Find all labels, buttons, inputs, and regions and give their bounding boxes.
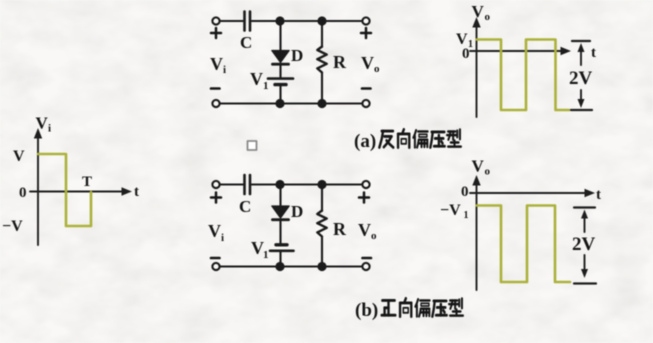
- svg-text:C: C: [240, 33, 252, 52]
- svg-text:0: 0: [19, 185, 27, 201]
- wire: bottom rail: [220, 102, 362, 104]
- svg-text:t: t: [134, 184, 139, 200]
- svg-text:V: V: [210, 54, 223, 74]
- wire: bottom rail: [220, 265, 362, 267]
- wire: battery V1 to bottom rail: [279, 252, 281, 267]
- svg-text:D: D: [291, 46, 303, 65]
- Vo(a) vertical axis: [476, 23, 478, 117]
- svg-text:1: 1: [464, 210, 469, 221]
- wire: node E down to resistor R: [321, 185, 323, 212]
- label - (output polarity): [363, 257, 372, 260]
- caption (b) forward-bias type: [355, 298, 463, 321]
- Vo(b) clamped square-wave trace: [477, 206, 571, 283]
- Vo(b) vertical axis: [476, 181, 478, 290]
- svg-text:o: o: [485, 11, 491, 23]
- svg-text:−V: −V: [2, 218, 23, 235]
- terminal: bottom-left input: [212, 263, 219, 270]
- svg-text:0: 0: [461, 184, 469, 200]
- 2V dimension up arrow: [578, 43, 585, 52]
- label + (input polarity): [211, 193, 221, 203]
- svg-text:V: V: [36, 114, 49, 133]
- svg-text:2V: 2V: [569, 68, 593, 89]
- battery V1 (long plate up, short plate down): [268, 77, 293, 80]
- svg-text:T: T: [82, 174, 92, 190]
- Vo(a) horizontal axis: [470, 50, 565, 52]
- bottom node under resistor junction dot: [317, 99, 326, 108]
- terminal: top-left input: [212, 181, 219, 188]
- wire: top-left terminal to capacitor: [220, 20, 243, 22]
- resistor R zigzag: [317, 47, 326, 73]
- wire: node C to node E: [280, 183, 322, 185]
- svg-text:i: i: [223, 64, 226, 76]
- Vi input square-wave trace: [38, 154, 91, 226]
- wire: node E to top-right terminal: [322, 183, 362, 185]
- svg-text:C: C: [239, 197, 251, 216]
- 2V dimension bottom bar: [571, 109, 592, 111]
- svg-text:0: 0: [462, 46, 470, 62]
- svg-text:1: 1: [263, 249, 269, 261]
- label - (input polarity): [211, 257, 220, 260]
- label + (output polarity): [359, 193, 369, 203]
- svg-text:D: D: [291, 202, 303, 221]
- svg-text:V: V: [358, 220, 371, 240]
- svg-text:(b): (b): [355, 300, 378, 321]
- resistor R zigzag: [317, 211, 326, 237]
- node C junction dot: [275, 180, 284, 189]
- Vo(a) horizontal axis arrowhead: [561, 47, 572, 55]
- label - (input polarity): [211, 87, 220, 90]
- wire: top-left terminal to capacitor: [220, 183, 243, 185]
- 2V dimension top bar: [572, 40, 590, 42]
- capacitor C1 plates: [245, 12, 251, 31]
- svg-text:2V: 2V: [572, 234, 596, 255]
- svg-text:(a): (a): [354, 131, 376, 152]
- svg-text:V: V: [472, 157, 485, 176]
- Vi plot horizontal axis (t): [30, 191, 126, 193]
- svg-text:−V: −V: [440, 202, 461, 219]
- Vo(b) horizontal axis: [470, 192, 589, 194]
- terminal: bottom-left input: [212, 100, 219, 107]
- node A junction dot: [275, 16, 284, 25]
- wire: diode cathode to battery V1: [279, 221, 281, 244]
- battery V1 (short plate up, long plate down): [276, 243, 287, 246]
- terminal: bottom-right output: [362, 100, 369, 107]
- bottom node under diode junction dot: [275, 262, 284, 271]
- svg-text:t: t: [596, 187, 601, 203]
- svg-text:o: o: [371, 230, 377, 242]
- label + (output polarity): [361, 28, 371, 38]
- node E junction dot: [317, 180, 326, 189]
- svg-text:R: R: [333, 52, 347, 72]
- svg-text:i: i: [48, 123, 51, 135]
- wire: diode cathode to battery V1: [279, 65, 281, 77]
- wire: battery V1 to bottom rail: [279, 86, 281, 104]
- svg-text:t: t: [591, 45, 596, 61]
- svg-text:R: R: [333, 219, 347, 239]
- terminal: top-right output: [362, 181, 369, 188]
- Vo(a) vertical axis arrowhead: [472, 17, 480, 28]
- 2V dimension up arrow: [581, 210, 588, 219]
- Vi plot horizontal axis arrowhead: [122, 187, 133, 195]
- label - (output polarity): [362, 87, 371, 90]
- Vo(b) vertical axis arrowhead: [472, 175, 480, 186]
- 2V dimension down arrow: [580, 90, 582, 101]
- 2V dimension down arrow: [584, 255, 586, 271]
- Vi plot vertical axis: [37, 134, 39, 245]
- wire: node B to top-right terminal: [322, 20, 362, 22]
- svg-text:1: 1: [263, 80, 269, 92]
- wire: capacitor to node A: [252, 20, 281, 22]
- label + (input polarity): [211, 28, 221, 38]
- svg-text:V: V: [13, 148, 25, 165]
- caption (a) reverse-bias type: [354, 129, 461, 152]
- svg-text:o: o: [374, 63, 380, 75]
- capacitor C2 plates: [245, 175, 251, 194]
- Vo(a) clamped square-wave trace: [477, 40, 570, 111]
- diode D (cathode down): [272, 206, 289, 218]
- wire: node B down to resistor R: [321, 21, 323, 47]
- 2V dimension top bar: [574, 206, 595, 208]
- wire: node A down to diode D anode: [279, 21, 281, 51]
- wire: resistor R to bottom rail: [321, 237, 323, 267]
- bottom node under diode junction dot: [275, 99, 284, 108]
- Vo(b) horizontal axis arrowhead: [585, 189, 596, 197]
- terminal: top-right output: [362, 17, 369, 24]
- node B junction dot: [317, 16, 326, 25]
- wire: node C down to diode D anode: [279, 185, 281, 207]
- Vi plot vertical axis arrowhead: [34, 128, 42, 139]
- diode D (cathode down): [272, 51, 289, 63]
- svg-text:V: V: [361, 53, 374, 73]
- svg-text:V: V: [250, 69, 263, 89]
- placeholder square glyph: [248, 141, 257, 150]
- wire: resistor R to bottom rail: [321, 73, 323, 104]
- terminal: bottom-right output: [362, 263, 369, 270]
- terminal: top-left input: [212, 17, 219, 24]
- 2V dimension bottom bar: [574, 282, 596, 284]
- wire: node A to node B: [280, 20, 322, 22]
- svg-text:i: i: [221, 232, 224, 244]
- svg-text:V: V: [472, 2, 485, 21]
- wire: capacitor to node C: [252, 183, 281, 185]
- bottom node under resistor junction dot: [317, 262, 326, 271]
- svg-text:o: o: [485, 166, 491, 178]
- svg-text:V: V: [208, 221, 221, 241]
